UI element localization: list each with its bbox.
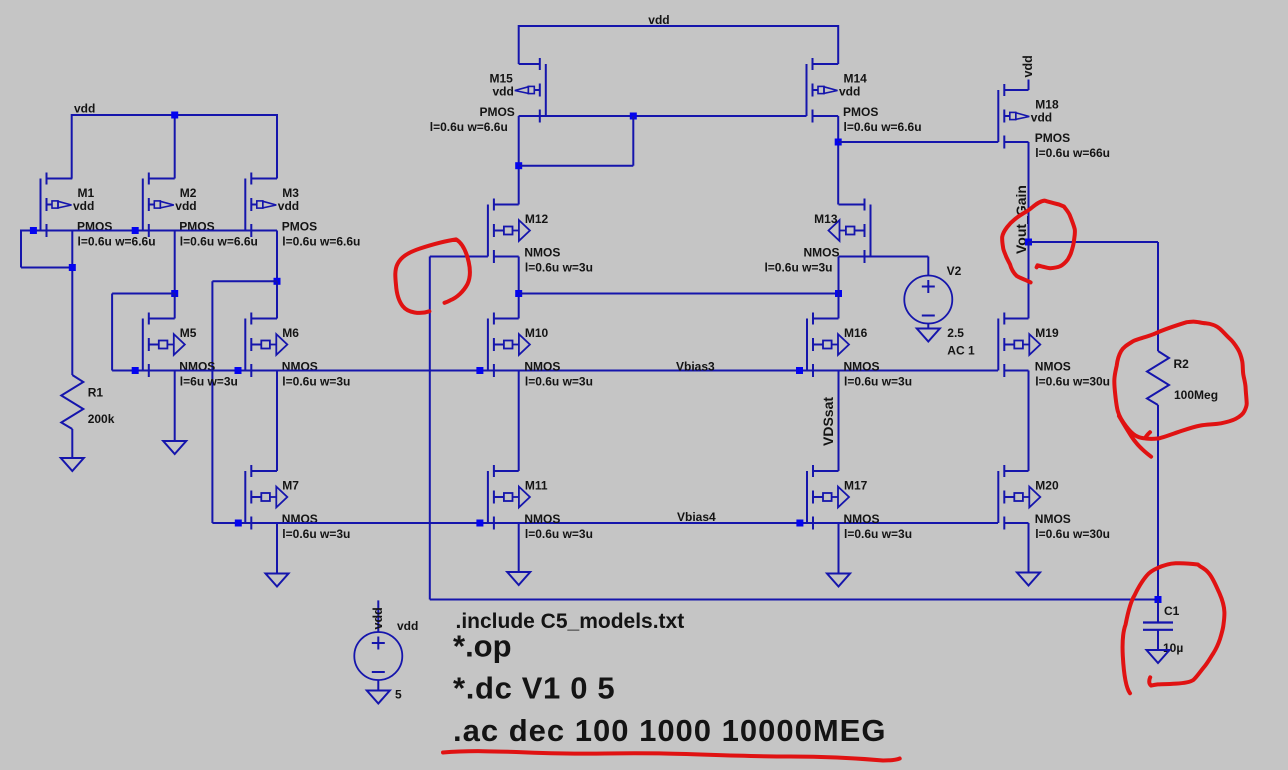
label V2 value 2.5 [947,326,964,340]
wire M15 source up [518,25,520,64]
directive *.dc V1 0 5 [453,670,615,705]
wire M6 drain up [276,281,278,318]
svg-text:l=0.6u w=3u: l=0.6u w=3u [844,375,912,389]
svg-text:PMOS: PMOS [1035,131,1070,145]
svg-text:l=0.6u w=6.6u: l=0.6u w=6.6u [282,235,360,249]
svg-text:M6: M6 [282,326,299,340]
red annotation circle near M12 gate [395,239,470,313]
junction Vbias3 at M16 [796,367,803,374]
svg-text:V2: V2 [947,264,962,278]
label net Vout_Gain (rotated) [1013,185,1029,254]
directive *.op [453,629,512,664]
svg-text:NMOS: NMOS [844,512,880,526]
svg-text:vdd: vdd [397,619,418,633]
wire M18 source stub up [1028,80,1030,91]
junction M14 drain / M18 gate [835,139,842,146]
svg-text:M20: M20 [1035,479,1059,493]
label V1 value 5 [395,688,402,702]
wire V1 bottom stem [377,680,379,691]
svg-text:M7: M7 [282,479,299,493]
svg-text:NMOS: NMOS [524,246,560,260]
svg-text:l=0.6u w=3u: l=0.6u w=3u [525,527,593,541]
svg-text:vdd: vdd [839,85,860,99]
svg-text:l=6u w=3u: l=6u w=3u [180,375,238,389]
svg-text:100Meg: 100Meg [1174,388,1218,402]
wire M2 source up [174,114,176,179]
label V2 value AC 1 [947,344,975,358]
label C1 name [1164,604,1180,618]
junction mirror node left [515,290,522,297]
wire M1 drain down to R1 [71,231,73,376]
wire mirror link y=293.5 [519,293,839,295]
wire M15-M14 gate bus y=116 [519,115,807,117]
wire M5 source to ground [174,371,176,442]
svg-text:l=0.6u w=6.6u: l=0.6u w=6.6u [844,120,922,134]
label net Vbias3 [676,360,715,374]
svg-text:vdd: vdd [1031,111,1052,125]
wire M5 drain up [174,294,176,319]
wire loop down x=212.4 to Vbias4 [211,281,213,523]
svg-text:M11: M11 [525,479,548,493]
junction vdd rail / M2 source [171,112,178,119]
ground under M11 [507,572,530,585]
wire R2 top lead [1157,242,1159,351]
transistor M12 NMOS l=0.6u w=3u [488,199,530,264]
svg-text:l=0.6u w=6.6u: l=0.6u w=6.6u [180,235,258,249]
node vdd label (top rail) [648,13,669,27]
svg-text:M5: M5 [180,326,197,340]
svg-text:vdd: vdd [492,85,513,99]
svg-text:PMOS: PMOS [479,105,514,119]
junction M1 drain / gate loop [69,264,76,271]
ground under V2 [917,329,940,342]
svg-text:l=0.6u w=30u: l=0.6u w=30u [1035,527,1110,541]
wire V2 top stem [927,257,929,277]
junction node Vout [1025,239,1032,246]
wire gate/drain bus y=230.5 [21,230,277,232]
wire M7 source to ground [276,523,278,574]
red annotation R2 circle hook [1145,432,1150,438]
wire M12 gate down x=429.8 [429,257,431,600]
svg-text:l=0.6u w=66u: l=0.6u w=66u [1035,146,1110,160]
ground under M17 [827,574,850,587]
transistor M15 PMOS l=0.6u w=6.6u (mirrored) [515,58,546,123]
svg-text:M16: M16 [844,326,868,340]
label R2 value 100Meg [1174,388,1218,402]
junction M3 drain / M6 gate loop [274,278,281,285]
svg-text:vdd: vdd [74,102,95,116]
directive .include C5_models.txt [456,610,685,633]
wire left loop down x=21 [20,230,22,268]
svg-text:l=0.6u w=3u: l=0.6u w=3u [525,261,593,275]
resistor R1 [61,375,83,429]
transistor M20 NMOS l=0.6u w=30u [998,465,1040,530]
svg-text:VDSsat: VDSsat [820,397,836,446]
wire M11 source to ground [518,523,520,572]
svg-text:NMOS: NMOS [804,246,840,260]
transistor M11 NMOS l=0.6u w=3u [488,465,530,530]
svg-text:M3: M3 [282,186,299,200]
transistor M1 PMOS l=0.6u w=6.6u [41,173,73,238]
wire M17 source to ground [838,523,840,574]
wire V1 top stub [377,600,379,632]
wire feedback down x=633.3 [632,116,634,166]
wire M1 source up [71,114,73,179]
junction Vbias3 at M5 [132,367,139,374]
svg-text:l=0.6u w=30u: l=0.6u w=30u [1035,375,1110,389]
wire M20 source to ground [1028,523,1030,573]
svg-text:vdd: vdd [648,13,669,27]
wire M6 source to M7 drain [276,371,278,472]
svg-text:M1: M1 [78,186,95,200]
wire vdd rail left y=115 [72,114,277,116]
transistor M3 PMOS l=0.6u w=6.6u [245,173,277,238]
wire M13 drain to M16 x=838.5 [838,257,840,319]
svg-text:l=0.6u w=3u: l=0.6u w=3u [525,375,593,389]
svg-text:C1: C1 [1164,604,1180,618]
wire M3 drain down x=277 [276,231,278,282]
junction Vbias4 at M17 [796,520,803,527]
voltage source V1 [354,632,402,680]
svg-text:M12: M12 [525,212,549,226]
junction M2 drain / M5 gate loop [171,290,178,297]
wire net Vbias4 y=523 [212,522,998,524]
ground under R1 [61,458,84,471]
svg-text:vdd: vdd [175,199,196,213]
svg-text:*.dc V1 0 5: *.dc V1 0 5 [453,670,615,705]
svg-text:NMOS: NMOS [524,360,560,374]
directive .ac dec 100 1000 10000MEG [453,713,886,748]
svg-text:5: 5 [395,688,402,702]
wire M19 source to M20 drain [1028,371,1030,472]
svg-text:.ac dec 100 1000 10000MEG: .ac dec 100 1000 10000MEG [453,713,886,748]
svg-text:PMOS: PMOS [282,220,317,234]
capacitor C1 10u [1143,623,1173,630]
node vdd label (left rail) [74,102,95,116]
transistor M16 NMOS l=0.6u w=3u [807,313,849,378]
svg-text:M14: M14 [844,72,868,86]
transistor M10 NMOS l=0.6u w=3u [488,313,530,378]
wire M14 source up [837,25,839,64]
ground under V1 [367,691,390,704]
svg-text:M18: M18 [1035,98,1059,112]
voltage source V2 [904,276,952,324]
wire Vout to M19 drain [1028,242,1030,319]
wire VDSsat M16 source to M17 drain [838,371,840,472]
node vdd label at M18 (rotated) [1021,55,1035,77]
svg-text:M17: M17 [844,479,868,493]
svg-text:l=0.6u w=6.6u: l=0.6u w=6.6u [430,120,508,134]
svg-text:Vbias3: Vbias3 [676,360,715,374]
junction Vbias3 at M10 [476,367,483,374]
junction on bus near M1 gate [30,227,37,234]
svg-text:M13: M13 [814,212,838,226]
svg-text:NMOS: NMOS [1035,512,1071,526]
svg-text:M19: M19 [1035,326,1059,340]
transistor M6 NMOS l=0.6u w=3u [245,313,287,378]
svg-text:l=0.6u w=3u: l=0.6u w=3u [282,527,350,541]
wire feedback y=165.7 [519,165,634,167]
svg-text:M2: M2 [180,186,197,200]
wire left loop bottom y=267.5 [21,267,72,269]
ground under M20 [1017,573,1040,586]
junction C1 top node [1155,596,1162,603]
red annotation underline under .ac directive [443,751,900,760]
svg-text:R2: R2 [1174,357,1190,371]
wire M18 gate feed y=142 [838,141,998,143]
svg-text:M15: M15 [489,72,513,86]
ground under M7 [266,574,289,587]
label net Vbias4 [677,510,716,524]
label R1 name [88,386,104,400]
svg-text:*.op: *.op [453,629,512,664]
transistor M14 PMOS l=0.6u w=6.6u [807,58,839,123]
resistor R2 [1147,351,1169,405]
svg-text:PMOS: PMOS [843,105,878,119]
wire M2 drain down x=174.7 [174,231,176,294]
junction Vbias3 at M6 [235,367,242,374]
label V1 net vdd [397,619,418,633]
wire V2 bottom stem [927,324,929,329]
wire M3 source up [276,114,278,179]
svg-text:vdd: vdd [73,199,94,213]
wire bottom rail y=599.5 [430,599,1158,601]
svg-text:vdd: vdd [278,199,299,213]
wire C1 bottom lead [1157,630,1159,650]
red annotation R2 circle tail [1119,416,1151,457]
wire M13 gate to V2 y=256.5 [839,256,929,258]
transistor M13 NMOS l=0.6u w=3u (mirrored) [829,199,871,264]
wire R1 to ground [71,429,73,458]
svg-text:l=0.6u w=3u: l=0.6u w=3u [844,527,912,541]
wire net Vbias3 y=370.5 [112,370,998,372]
svg-text:200k: 200k [88,412,115,426]
junction bus / M5 branch [132,227,139,234]
junction M15 drain feedback [515,162,522,169]
transistor M5 NMOS l=6u w=3u [143,313,185,378]
wire loop y=293.5 left [112,293,175,295]
svg-text:AC 1: AC 1 [947,344,975,358]
label V2 name [947,264,962,278]
junction Vbias4 at M7 [235,520,242,527]
svg-text:NMOS: NMOS [844,360,880,374]
wire M10 source to M11 drain [518,371,520,472]
wire M14 drain down x=838.2 [837,116,839,205]
wire M12 gate left y=256.5 [430,256,488,258]
transistor M17 NMOS l=0.6u w=3u [807,465,849,530]
ground under M5 [163,441,186,454]
red annotation circle around Vout [1002,201,1075,283]
svg-text:l=0.6u w=6.6u: l=0.6u w=6.6u [78,235,156,249]
junction gate bus feedback [630,113,637,120]
node vdd label at V1 (rotated) [371,607,385,629]
label net VDSsat (rotated) [820,397,836,446]
label C1 value 10u [1163,641,1183,655]
svg-text:l=0.6u w=3u: l=0.6u w=3u [282,375,350,389]
wire Vout to R2 y=242 [1029,241,1159,243]
wire M15 drain down x=518.7 [518,116,520,205]
red annotation circle around C1 [1123,563,1225,693]
transistor M19 NMOS l=0.6u w=30u [998,313,1040,378]
svg-text:2.5: 2.5 [947,326,964,340]
svg-text:R1: R1 [88,386,104,400]
transistor M18 PMOS l=0.6u w=66u [998,84,1029,149]
red annotation circle around R2 [1114,322,1246,439]
svg-text:l=0.6u w=3u: l=0.6u w=3u [764,261,832,275]
wire M18 drain down to Vout [1028,142,1030,242]
svg-text:M10: M10 [525,326,549,340]
wire loop y=281.3 [212,280,277,282]
transistor M2 PMOS l=0.6u w=6.6u [143,173,175,238]
wire loop down x=112.1 [111,294,113,371]
svg-text:NMOS: NMOS [1035,360,1071,374]
wire vdd rail top y=26 [519,25,839,27]
svg-text:vdd: vdd [1021,55,1035,77]
svg-text:vdd: vdd [371,607,385,629]
label R2 name [1174,357,1190,371]
junction Vbias4 at M11 [476,520,483,527]
label R1 value 200k [88,412,115,426]
svg-text:NMOS: NMOS [524,512,560,526]
ground under C1 [1147,650,1170,663]
wire M12 drain to M10 x=518.7 [518,257,520,319]
wire C1 top lead [1157,600,1159,623]
wire R2 bottom lead [1157,405,1159,600]
svg-text:Vbias4: Vbias4 [677,510,716,524]
transistor M7 NMOS l=0.6u w=3u [245,465,287,530]
junction mirror node right [835,290,842,297]
